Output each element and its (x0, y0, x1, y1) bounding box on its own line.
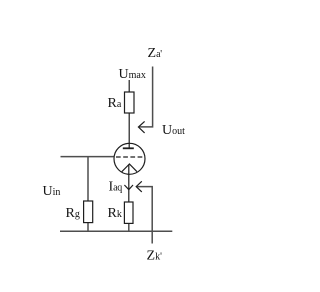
svg-text:Zk': Zk' (147, 249, 163, 264)
svg-text:Za': Za' (148, 46, 163, 61)
svg-text:Rk: Rk (108, 206, 122, 221)
svg-text:Uout: Uout (162, 123, 185, 138)
svg-text:Rg: Rg (66, 206, 80, 221)
svg-text:Ra: Ra (108, 96, 122, 111)
svg-text:Umax: Umax (119, 67, 146, 82)
svg-text:Uin: Uin (43, 184, 61, 199)
svg-text:Iaq: Iaq (109, 180, 123, 195)
